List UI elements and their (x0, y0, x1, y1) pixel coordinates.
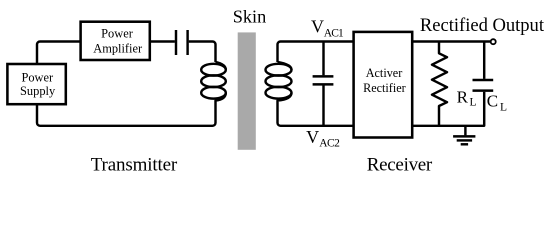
svg-text:AC2: AC2 (319, 138, 340, 150)
svg-text:V: V (306, 127, 319, 147)
svg-text:R: R (457, 88, 469, 107)
svg-text:V: V (311, 17, 324, 37)
svg-text:C: C (487, 91, 498, 110)
svg-text:L: L (500, 101, 507, 113)
svg-text:Skin: Skin (233, 6, 267, 26)
svg-text:Power: Power (21, 70, 54, 84)
svg-text:L: L (470, 96, 477, 108)
svg-text:Rectifier: Rectifier (363, 81, 406, 95)
svg-text:Activer: Activer (366, 66, 403, 80)
svg-text:AC1: AC1 (324, 28, 344, 40)
svg-text:Transmitter: Transmitter (91, 154, 178, 175)
svg-text:Receiver: Receiver (367, 155, 433, 176)
svg-text:Rectified Output: Rectified Output (420, 15, 545, 36)
svg-text:Power: Power (101, 26, 134, 40)
svg-text:Supply: Supply (20, 84, 56, 98)
svg-text:Amplifier: Amplifier (93, 41, 143, 55)
